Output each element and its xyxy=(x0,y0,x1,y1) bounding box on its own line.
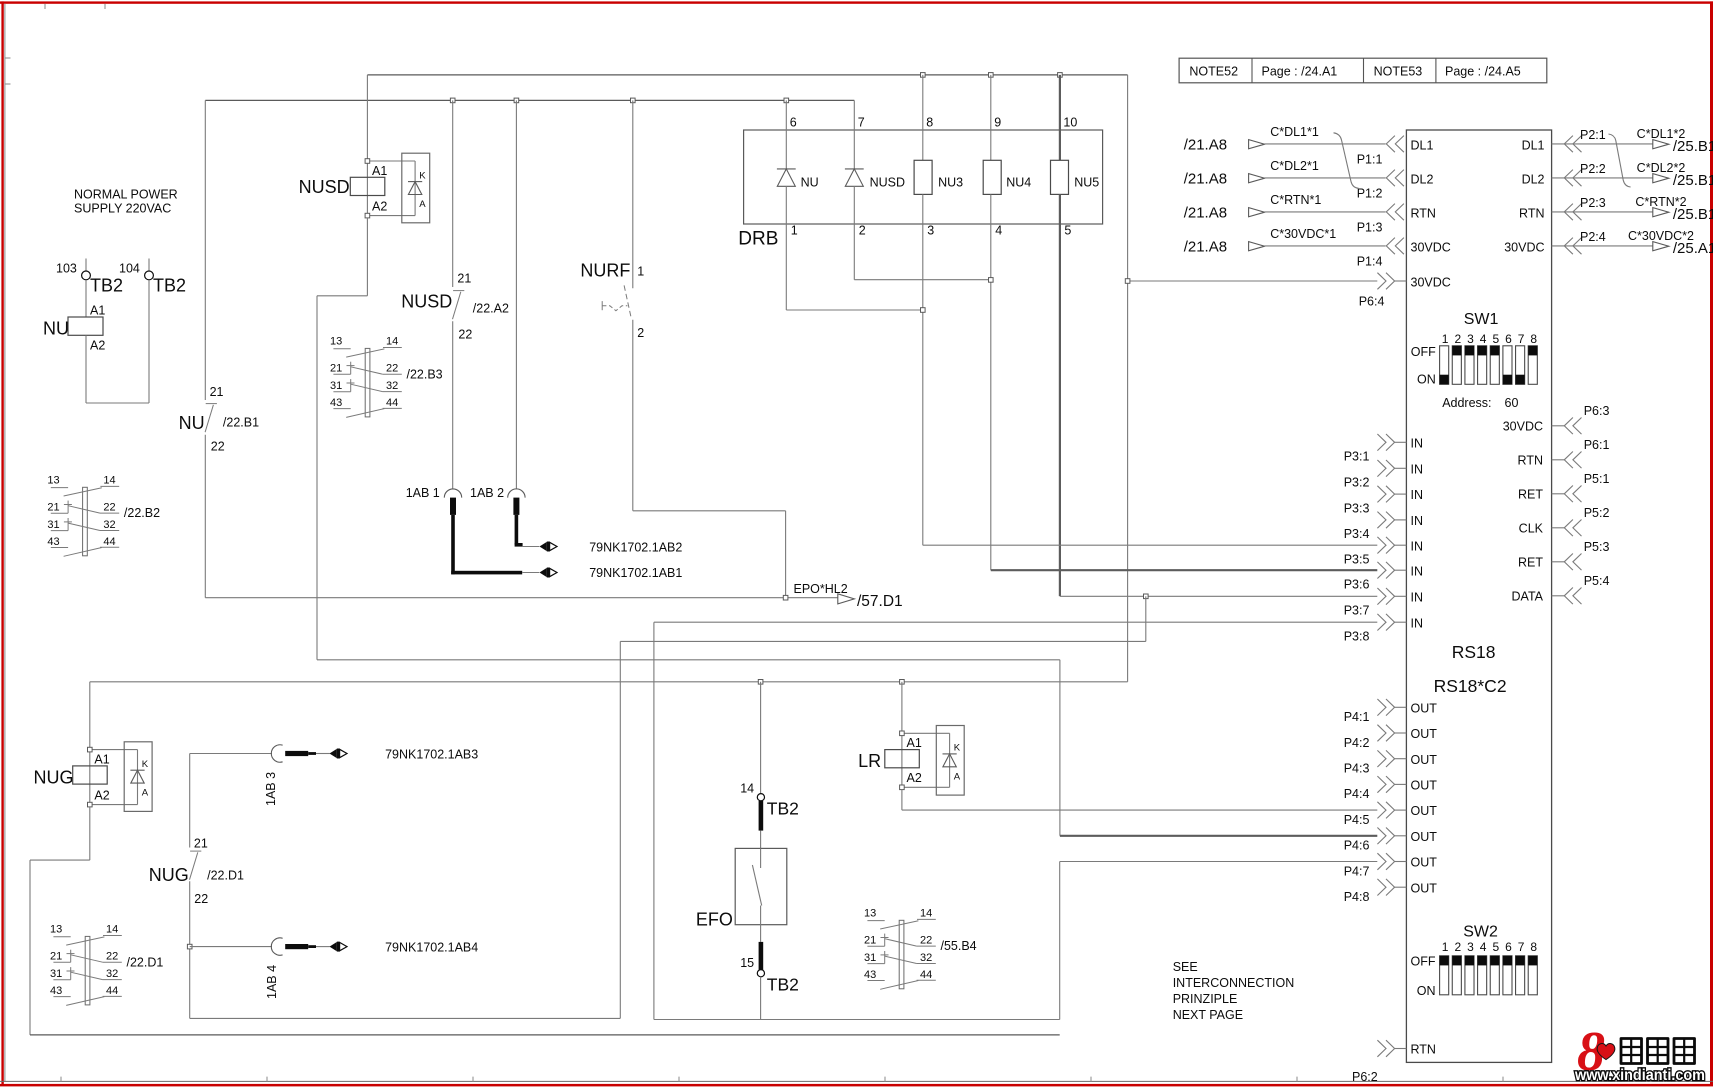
pin RET right P5:1 xyxy=(1518,472,1609,502)
pin 30VDC right P6:3 xyxy=(1503,404,1610,434)
wire NUG A2 return loop xyxy=(30,807,90,1035)
svg-text:NUSD: NUSD xyxy=(870,175,905,189)
svg-text:NUG: NUG xyxy=(34,768,74,788)
svg-text:DATA: DATA xyxy=(1512,590,1544,604)
svg-text:A2: A2 xyxy=(94,788,109,802)
svg-text:NURF: NURF xyxy=(580,260,630,280)
svg-text:4: 4 xyxy=(1480,332,1487,346)
svg-text:44: 44 xyxy=(920,969,932,981)
logo xindianti xyxy=(1574,1021,1705,1084)
contact block NU /22.B2 xyxy=(47,475,160,557)
svg-text:/57.D1: /57.D1 xyxy=(857,593,903,610)
svg-text:DL2: DL2 xyxy=(1522,173,1545,187)
svg-text:32: 32 xyxy=(103,519,115,531)
wire DRB pin2 to pin4 link xyxy=(854,278,993,283)
wire 1AB3 branch xyxy=(190,754,272,848)
svg-text:OUT: OUT xyxy=(1411,727,1438,741)
connector 1AB 3 cable stub xyxy=(264,745,347,806)
wire NUSD A2 net to P4:6 xyxy=(317,660,1377,836)
relay coil NUG with suppressor diode xyxy=(34,682,153,812)
svg-text:/22.B2: /22.B2 xyxy=(124,506,160,520)
note SEE INTERCONNECTION PRINZIPLE NEXT PAGE xyxy=(1173,960,1295,1022)
svg-text:P6:1: P6:1 xyxy=(1584,438,1610,452)
svg-text:P2:3: P2:3 xyxy=(1580,196,1606,210)
pin OUT left P4:8 xyxy=(1344,879,1438,904)
svg-text:P4:4: P4:4 xyxy=(1344,787,1370,801)
svg-text:SUPPLY 220VAC: SUPPLY 220VAC xyxy=(74,202,171,216)
wire EPO*HL2 line xyxy=(205,595,838,600)
svg-text:P1:2: P1:2 xyxy=(1357,186,1383,200)
svg-text:3: 3 xyxy=(927,224,934,238)
svg-text:22: 22 xyxy=(103,501,115,513)
svg-text:P6:4: P6:4 xyxy=(1359,295,1385,309)
resistor NU4 in DRB xyxy=(983,75,1031,570)
svg-text:P6:2: P6:2 xyxy=(1352,1070,1378,1084)
resistor NU5 in DRB xyxy=(1051,75,1100,596)
svg-text:K: K xyxy=(954,743,961,754)
svg-text:43: 43 xyxy=(50,985,62,997)
svg-text:Address:: Address: xyxy=(1442,396,1491,410)
block DRB outline xyxy=(744,130,1103,224)
svg-text:K: K xyxy=(142,759,149,770)
svg-text:/22.B1: /22.B1 xyxy=(223,416,259,430)
pin IN left P3:3 xyxy=(1344,486,1423,516)
svg-text:1: 1 xyxy=(1442,332,1449,346)
svg-text:IN: IN xyxy=(1411,514,1424,528)
svg-text:P4:6: P4:6 xyxy=(1344,839,1370,853)
svg-text:4: 4 xyxy=(995,224,1002,238)
svg-text:22: 22 xyxy=(458,328,472,342)
svg-text:RTN: RTN xyxy=(1411,1043,1436,1057)
svg-text:13: 13 xyxy=(864,908,876,920)
svg-text:31: 31 xyxy=(864,952,876,964)
svg-text:IN: IN xyxy=(1411,564,1424,578)
terminal TB2 15 xyxy=(740,942,799,1020)
svg-text:NUG: NUG xyxy=(149,865,189,885)
svg-text:A2: A2 xyxy=(90,339,105,353)
pin 30VDC left input P6:4 xyxy=(1359,273,1451,309)
svg-text:P4:1: P4:1 xyxy=(1344,710,1370,724)
svg-text:P3:8: P3:8 xyxy=(1344,629,1370,643)
svg-text:30VDC: 30VDC xyxy=(1411,276,1451,290)
svg-text:IN: IN xyxy=(1411,488,1424,502)
svg-text:15: 15 xyxy=(740,956,754,970)
svg-text:OUT: OUT xyxy=(1411,804,1438,818)
svg-text:22: 22 xyxy=(194,892,208,906)
svg-text:NU: NU xyxy=(179,413,205,433)
svg-text:K: K xyxy=(419,170,426,181)
svg-text:P5:1: P5:1 xyxy=(1584,472,1610,486)
svg-text:21: 21 xyxy=(864,934,876,946)
contact NUSD 21/22 /22.A2 xyxy=(401,272,509,342)
svg-text:TB2: TB2 xyxy=(767,975,799,995)
svg-text:A2: A2 xyxy=(372,199,387,213)
svg-text:P6:3: P6:3 xyxy=(1584,404,1610,418)
wire 1AB1 riser upper xyxy=(452,100,454,287)
svg-text:21: 21 xyxy=(457,272,471,286)
svg-text:/21.A8: /21.A8 xyxy=(1184,170,1227,187)
pin OUT left P4:3 xyxy=(1344,750,1438,775)
svg-text:A1: A1 xyxy=(94,752,109,766)
svg-text:/22.B3: /22.B3 xyxy=(407,367,443,381)
diode NU in DRB xyxy=(777,100,819,310)
svg-text:22: 22 xyxy=(386,363,398,375)
svg-text:A1: A1 xyxy=(907,736,922,750)
svg-text:P4:8: P4:8 xyxy=(1344,890,1370,904)
svg-text:/25.A1: /25.A1 xyxy=(1673,240,1713,257)
wire 1AB4 branch xyxy=(190,946,272,948)
svg-text:21: 21 xyxy=(50,951,62,963)
svg-text:22: 22 xyxy=(106,951,118,963)
svg-text:DL1: DL1 xyxy=(1411,139,1434,153)
svg-text:79NK1702.1AB1: 79NK1702.1AB1 xyxy=(589,566,682,580)
svg-text:13: 13 xyxy=(330,336,342,348)
svg-text:8: 8 xyxy=(1530,940,1537,954)
node junction DRB col8 on top bus xyxy=(921,73,926,78)
svg-text:79NK1702.1AB3: 79NK1702.1AB3 xyxy=(385,747,478,761)
pin RTN right P6:1 xyxy=(1518,438,1610,468)
svg-text:5: 5 xyxy=(1492,940,1499,954)
svg-text:P2:2: P2:2 xyxy=(1580,162,1606,176)
node junction DRB col10 on top bus xyxy=(1058,73,1063,78)
node junction at (1127.6,281) xyxy=(1125,279,1130,284)
svg-text:A: A xyxy=(419,199,426,210)
wire NUG contact to P3:7 net route xyxy=(190,596,1146,1018)
relay coil NU xyxy=(43,280,105,352)
svg-text:P1:3: P1:3 xyxy=(1357,220,1383,234)
svg-text:103: 103 xyxy=(56,262,77,276)
wire 1AB1 riser lower xyxy=(452,321,454,489)
svg-text:104: 104 xyxy=(119,262,140,276)
pin IN left P3:1 xyxy=(1344,434,1423,464)
wire bottom return bus (y=1035) xyxy=(30,1034,1060,1036)
svg-text:P4:7: P4:7 xyxy=(1344,864,1370,878)
svg-text:IN: IN xyxy=(1411,462,1424,476)
svg-text:RET: RET xyxy=(1518,488,1543,502)
svg-text:IN: IN xyxy=(1411,436,1424,450)
module RS18 outline xyxy=(1406,130,1551,1062)
svg-text:79NK1702.1AB2: 79NK1702.1AB2 xyxy=(589,541,682,555)
svg-text:SW1: SW1 xyxy=(1464,311,1499,328)
svg-text:44: 44 xyxy=(106,985,118,997)
svg-text:43: 43 xyxy=(330,397,342,409)
svg-text:NU5: NU5 xyxy=(1074,175,1099,189)
svg-text:ON: ON xyxy=(1417,984,1436,998)
svg-text:1: 1 xyxy=(791,224,798,238)
svg-text:/25.B1: /25.B1 xyxy=(1673,172,1713,189)
svg-text:C*DL2*1: C*DL2*1 xyxy=(1270,159,1319,173)
svg-text:DL2: DL2 xyxy=(1411,173,1434,187)
svg-text:NORMAL POWER: NORMAL POWER xyxy=(74,188,178,202)
pin RET right P5:3 xyxy=(1518,540,1609,570)
svg-text:RTN: RTN xyxy=(1411,207,1436,221)
svg-text:44: 44 xyxy=(386,397,398,409)
svg-text:LR: LR xyxy=(858,751,881,771)
svg-text:/22.D1: /22.D1 xyxy=(127,955,164,969)
svg-text:14: 14 xyxy=(386,336,398,348)
svg-text:TB2: TB2 xyxy=(153,276,186,296)
svg-text:21: 21 xyxy=(194,837,208,851)
svg-text:P1:4: P1:4 xyxy=(1357,254,1383,268)
svg-text:10: 10 xyxy=(1063,116,1077,130)
svg-text:C*DL1*1: C*DL1*1 xyxy=(1270,125,1319,139)
svg-text:30VDC: 30VDC xyxy=(1411,241,1451,255)
svg-text:6: 6 xyxy=(790,116,797,130)
svg-text:1AB 2: 1AB 2 xyxy=(470,486,504,500)
svg-text:P3:4: P3:4 xyxy=(1344,527,1370,541)
wire DRB net to P3:6 thick xyxy=(991,569,1378,571)
svg-text:32: 32 xyxy=(386,380,398,392)
svg-text:P5:2: P5:2 xyxy=(1584,506,1610,520)
terminal TB2 14 xyxy=(740,682,799,849)
wire NURF to EPO junction xyxy=(633,511,786,598)
svg-text:RET: RET xyxy=(1518,556,1543,570)
node junction 1AB1 riser xyxy=(450,98,455,103)
svg-text:P3:6: P3:6 xyxy=(1344,577,1370,591)
svg-text:A2: A2 xyxy=(907,771,922,785)
wire 1AB2 riser xyxy=(515,100,517,489)
svg-text:1: 1 xyxy=(1442,940,1449,954)
contact block LR /55.B4 xyxy=(864,908,977,990)
svg-text:30VDC: 30VDC xyxy=(1503,420,1543,434)
svg-text:Page : /24.A5: Page : /24.A5 xyxy=(1445,65,1521,79)
svg-text:8: 8 xyxy=(1530,332,1537,346)
label EPO*HL2 and destination /57.D1 xyxy=(794,582,903,610)
svg-text:NUSD: NUSD xyxy=(401,291,452,311)
pin OUT left P4:6 xyxy=(1344,828,1438,853)
contact block NUG /22.D1 xyxy=(50,924,163,1006)
contact block NUSD /22.B3 xyxy=(330,336,443,418)
svg-text:P4:3: P4:3 xyxy=(1344,762,1370,776)
svg-text:C*30VDC*1: C*30VDC*1 xyxy=(1270,227,1336,241)
pin 30VDC right output P2:4 xyxy=(1504,229,1713,257)
svg-text:/21.A8: /21.A8 xyxy=(1184,238,1227,255)
svg-text:INTERCONNECTION: INTERCONNECTION xyxy=(1173,976,1295,990)
pin IN left P3:4 xyxy=(1344,512,1423,541)
svg-text:P3:2: P3:2 xyxy=(1344,476,1370,490)
wire NU coil return to TB2 104 xyxy=(86,280,149,403)
note table xyxy=(1179,58,1547,83)
svg-text:OUT: OUT xyxy=(1411,779,1438,793)
svg-text:OUT: OUT xyxy=(1411,856,1438,870)
node junction DRB col9 on top bus xyxy=(989,73,994,78)
svg-text:CLK: CLK xyxy=(1519,522,1544,536)
svg-text:6: 6 xyxy=(1505,940,1512,954)
wire top bus 30VDC (y=75) xyxy=(367,74,1127,76)
svg-text:DL1: DL1 xyxy=(1522,139,1545,153)
svg-text:P3:7: P3:7 xyxy=(1344,604,1370,618)
svg-text:P1:1: P1:1 xyxy=(1357,152,1383,166)
wire DRB net to P3:5 xyxy=(923,544,1378,546)
wire right riser from top bus to P6:4 and coil bus xyxy=(1127,75,1129,682)
terminal TB2 104 xyxy=(119,259,186,296)
svg-text:32: 32 xyxy=(920,952,932,964)
svg-text:22: 22 xyxy=(920,934,932,946)
svg-text:RS18*C2: RS18*C2 xyxy=(1434,676,1507,696)
pin DL1 left input P1:1 xyxy=(1184,125,1434,166)
pin DL2 left input P1:2 xyxy=(1184,159,1434,200)
node junction EFO on coil bus xyxy=(758,680,763,685)
svg-text:13: 13 xyxy=(50,924,62,936)
svg-text:P2:1: P2:1 xyxy=(1580,128,1606,142)
svg-text:EFO: EFO xyxy=(696,910,733,930)
node junction LR on coil bus xyxy=(900,680,905,685)
svg-text:NOTE52: NOTE52 xyxy=(1189,65,1238,79)
pin IN left P3:2 xyxy=(1344,460,1423,490)
connector 1AB 4 cable stub xyxy=(265,938,347,999)
svg-text:7: 7 xyxy=(858,116,865,130)
svg-text:5: 5 xyxy=(1492,332,1499,346)
node junction DRB col6 riser xyxy=(784,98,789,103)
connector 1AB 1 cable stub xyxy=(406,486,557,578)
pin RTN left P6:2 xyxy=(1352,1040,1436,1084)
svg-text:/21.A8: /21.A8 xyxy=(1184,204,1227,221)
node junction NURF riser xyxy=(631,98,636,103)
svg-text:31: 31 xyxy=(50,968,62,980)
svg-text:Page : /24.A1: Page : /24.A1 xyxy=(1262,65,1338,79)
pin IN left P3:8 xyxy=(1344,614,1423,644)
svg-text:P3:3: P3:3 xyxy=(1344,501,1370,515)
svg-text:1AB 3: 1AB 3 xyxy=(264,772,278,806)
pin IN left P3:6 xyxy=(1344,562,1423,592)
svg-text:OUT: OUT xyxy=(1411,881,1438,895)
svg-text:P5:3: P5:3 xyxy=(1584,540,1610,554)
svg-text:1AB 4: 1AB 4 xyxy=(265,965,279,999)
wire LR A2 to P4:5 xyxy=(902,790,1377,811)
svg-text:NU: NU xyxy=(43,319,69,339)
pin OUT left P4:2 xyxy=(1344,725,1438,750)
svg-text:21: 21 xyxy=(330,363,342,375)
contact NURF 1/2 emergency switch xyxy=(580,100,644,510)
cable slash P2 group xyxy=(1609,134,1631,187)
svg-text:A1: A1 xyxy=(90,304,105,318)
pin 30VDC left input P1:4 xyxy=(1184,227,1451,268)
wire second bus (y=100) xyxy=(205,99,854,101)
pin OUT left P4:7 xyxy=(1344,853,1438,878)
svg-text:13: 13 xyxy=(47,475,59,487)
pin OUT left P4:4 xyxy=(1344,776,1438,801)
contact NU 21/22 /22.B1 xyxy=(179,100,259,595)
pin DL2 right output P2:2 xyxy=(1522,161,1713,189)
svg-text:2: 2 xyxy=(1454,332,1461,346)
svg-text:A: A xyxy=(954,771,961,782)
svg-text:/21.A8: /21.A8 xyxy=(1184,136,1227,153)
node junction 1AB4 branch xyxy=(187,944,192,949)
cable slash P1 group xyxy=(1334,133,1359,189)
dip switch SW2 xyxy=(1411,923,1538,997)
pin DATA right P5:4 xyxy=(1512,574,1610,604)
terminal TB2 103 xyxy=(56,259,123,296)
svg-text:9: 9 xyxy=(994,116,1001,130)
svg-text:14: 14 xyxy=(920,908,932,920)
svg-text:DRB: DRB xyxy=(738,228,778,249)
svg-text:TB2: TB2 xyxy=(767,798,799,818)
svg-text:NU3: NU3 xyxy=(938,175,963,189)
svg-text:NOTE53: NOTE53 xyxy=(1374,65,1423,79)
svg-text:2: 2 xyxy=(859,224,866,238)
svg-text:21: 21 xyxy=(210,385,224,399)
relay coil LR with suppressor diode xyxy=(858,682,964,795)
wire coil supply bus (y=682) xyxy=(90,681,1128,683)
resistor NU3 in DRB xyxy=(914,75,963,545)
svg-text:79NK1702.1AB4: 79NK1702.1AB4 xyxy=(385,941,478,955)
svg-text:P3:1: P3:1 xyxy=(1344,450,1370,464)
svg-text:NUSD: NUSD xyxy=(299,177,350,197)
wire NU5 net to P3:7 xyxy=(1060,594,1377,599)
svg-text:RTN: RTN xyxy=(1518,454,1543,468)
svg-text:IN: IN xyxy=(1411,539,1424,553)
svg-text:3: 3 xyxy=(1467,332,1474,346)
svg-text:/22.D1: /22.D1 xyxy=(207,868,244,882)
svg-text:/22.A2: /22.A2 xyxy=(473,302,509,316)
label Address 60 xyxy=(1442,396,1518,410)
svg-text:A: A xyxy=(142,788,149,799)
svg-text:1: 1 xyxy=(637,265,644,279)
svg-text:/25.B1: /25.B1 xyxy=(1673,138,1713,155)
svg-text:44: 44 xyxy=(103,536,115,548)
svg-text:IN: IN xyxy=(1411,616,1424,630)
svg-text:5: 5 xyxy=(1064,224,1071,238)
svg-text:SW2: SW2 xyxy=(1463,923,1498,940)
dip switch SW1 xyxy=(1411,311,1538,387)
svg-text:8: 8 xyxy=(926,116,933,130)
wire 30VDC branch to P6:4 xyxy=(1128,280,1378,282)
svg-text:31: 31 xyxy=(330,380,342,392)
pin OUT left P4:1 xyxy=(1344,699,1438,724)
svg-text:30VDC: 30VDC xyxy=(1504,241,1544,255)
svg-text:ON: ON xyxy=(1417,373,1436,387)
svg-text:60: 60 xyxy=(1505,396,1519,410)
svg-text:OFF: OFF xyxy=(1411,345,1436,359)
svg-text:RS18: RS18 xyxy=(1452,642,1496,662)
svg-text:2: 2 xyxy=(637,326,644,340)
switch EFO xyxy=(696,848,787,942)
svg-text:22: 22 xyxy=(211,440,225,454)
wire DRB pin1 to pin3 link xyxy=(786,308,925,313)
svg-text:43: 43 xyxy=(864,969,876,981)
svg-text:4: 4 xyxy=(1480,940,1487,954)
pin RTN right output P2:3 xyxy=(1519,195,1713,223)
svg-text:P3:5: P3:5 xyxy=(1344,552,1370,566)
svg-text:SEE: SEE xyxy=(1173,960,1198,974)
svg-text:/55.B4: /55.B4 xyxy=(941,939,977,953)
svg-text:43: 43 xyxy=(47,536,59,548)
svg-text:NU4: NU4 xyxy=(1006,175,1031,189)
connector 1AB 2 cable stub xyxy=(470,486,557,552)
contact NUG 21/22 /22.D1 xyxy=(149,837,244,1019)
svg-text:OUT: OUT xyxy=(1411,753,1438,767)
svg-text:P4:2: P4:2 xyxy=(1344,736,1370,750)
svg-text:C*RTN*1: C*RTN*1 xyxy=(1270,193,1321,207)
svg-text:PRINZIPLE: PRINZIPLE xyxy=(1173,992,1238,1006)
svg-text:P4:5: P4:5 xyxy=(1344,813,1370,827)
relay coil NUSD with suppressor diode xyxy=(299,75,430,223)
svg-text:NU: NU xyxy=(801,175,819,189)
svg-text:31: 31 xyxy=(47,519,59,531)
svg-text:OUT: OUT xyxy=(1411,701,1438,715)
svg-text:A1: A1 xyxy=(372,164,387,178)
diode NUSD in DRB xyxy=(845,100,905,279)
svg-text:14: 14 xyxy=(103,475,115,487)
wire EFO loop to P3:8 and P4:7 xyxy=(654,622,1377,1019)
pin CLK right P5:2 xyxy=(1519,506,1610,536)
svg-text:P5:4: P5:4 xyxy=(1584,574,1610,588)
svg-text:7: 7 xyxy=(1518,332,1525,346)
svg-text:21: 21 xyxy=(47,501,59,513)
label NORMAL POWER SUPPLY 220VAC xyxy=(74,188,178,216)
svg-text:P2:4: P2:4 xyxy=(1580,230,1606,244)
svg-text:1AB 1: 1AB 1 xyxy=(406,486,440,500)
